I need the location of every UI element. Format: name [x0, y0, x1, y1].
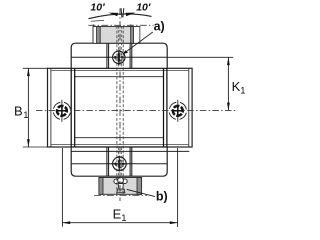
- dim E1 extension left: [61, 148, 63, 227]
- bottom piece bar right: [137, 178, 142, 195]
- lower screw joint line: [71, 163, 167, 165]
- top piece clamp bar right: [131, 27, 134, 44]
- screw right cross slot: [173, 106, 183, 116]
- screw bottom cross slot: [114, 163, 124, 165]
- top piece tick left: [92, 24, 94, 26]
- svg-text:a): a): [154, 20, 165, 34]
- screw bottom cross vertical: [118, 156, 120, 172]
- slab chamfer line left: [50, 68, 52, 147]
- bottom lube piece body: [99, 178, 142, 195]
- horizontal centerline: [36, 109, 236, 111]
- top clamp piece body: [93, 27, 140, 44]
- upper block: [71, 43, 167, 68]
- lower port wall right: [130, 147, 132, 176]
- hidden thread line right top: [121, 26, 123, 68]
- tilt arc arrow right: [126, 13, 136, 17]
- tilt arc dimension: [89, 14, 152, 19]
- slab recess top edge: [75, 76, 163, 78]
- tilt line tick right: [122, 8, 125, 17]
- dim B1 extension bottom: [23, 146, 48, 148]
- block edge through slab left: [71, 68, 75, 147]
- grease nipple base line: [117, 190, 125, 192]
- screw top outer: [113, 51, 125, 63]
- svg-text:10′: 10′: [136, 2, 151, 14]
- lube hole circle left: [114, 179, 119, 184]
- bottom piece bar left: [99, 178, 103, 195]
- screw top cross vertical: [118, 50, 120, 65]
- screw bottom cross horizontal: [111, 163, 129, 165]
- hidden thread line right bottom: [121, 148, 123, 177]
- top piece clamp bar left: [97, 27, 101, 44]
- callout b) leader: [127, 189, 155, 196]
- lube hole circle right: [123, 179, 128, 184]
- block edge through slab right: [164, 68, 167, 147]
- dim B1 arrow top: [27, 68, 30, 76]
- tilt face line left: [91, 19, 104, 22]
- grease nipple base: [117, 189, 125, 193]
- slab chamfer line top: [51, 70, 189, 72]
- hidden hole line left: [116, 26, 118, 194]
- main slab body: [48, 68, 193, 147]
- screw top head ring fragments: [114, 52, 124, 62]
- dim B1 arrow bottom: [27, 139, 30, 147]
- upper screw joint line: [71, 56, 167, 58]
- svg-text:10′: 10′: [90, 2, 105, 14]
- lower block base joint line: [71, 150, 190, 152]
- top piece pivot centerline: [89, 24, 154, 26]
- top piece white strip left: [94, 27, 97, 43]
- svg-text:B: B: [14, 104, 23, 119]
- screw bottom head ring fragments: [114, 159, 124, 169]
- dim E1 arrow right: [170, 221, 178, 224]
- dim B1 line: [27, 68, 29, 147]
- screw bottom outer: [113, 157, 127, 171]
- screw left outer: [52, 100, 73, 121]
- top piece tick right: [130, 24, 132, 26]
- hidden thread line left bottom: [117, 148, 119, 177]
- hidden hole line right: [122, 26, 124, 194]
- vertical centerline: [119, 9, 121, 202]
- dim E1 arrow left: [62, 221, 70, 224]
- dim E1 line: [62, 222, 177, 224]
- dim K1 arrow top: [227, 57, 230, 65]
- callout a) leader arrowhead: [123, 50, 128, 54]
- slab chamfer line bottom: [51, 144, 189, 146]
- screw right cross vertical: [177, 100, 179, 122]
- callout a) leader: [123, 32, 153, 54]
- svg-text:1: 1: [23, 110, 28, 121]
- screw right outer: [167, 100, 188, 121]
- upper port wall left: [107, 43, 109, 68]
- svg-text:1: 1: [240, 85, 245, 96]
- svg-text:1: 1: [121, 213, 126, 224]
- screw top cross slot: [114, 56, 123, 58]
- screw left head ring: [55, 104, 69, 118]
- screw left cross vertical: [61, 100, 63, 122]
- screw right head ring: [171, 104, 185, 118]
- lower block: [71, 147, 167, 176]
- dim B1 extension top: [23, 67, 48, 69]
- tilt arc arrow left: [108, 13, 118, 17]
- bottom piece pivot centerline: [94, 194, 147, 196]
- grease nipple neck: [118, 184, 123, 190]
- screw left cross slot: [57, 106, 67, 116]
- dim K1 extension top: [167, 56, 233, 58]
- svg-text:b): b): [156, 189, 168, 203]
- hidden thread line left top: [117, 26, 119, 68]
- top piece white strip right: [134, 27, 140, 43]
- dim K1 arrow bottom: [227, 103, 230, 111]
- slab chamfer line right: [188, 68, 190, 147]
- dim K1 line: [227, 57, 229, 110]
- grease nipple dome: [118, 177, 124, 183]
- tilt line tick left: [120, 8, 123, 17]
- lower port wall left: [107, 147, 109, 176]
- dim E1 extension right: [177, 148, 179, 227]
- slab recess bottom edge: [75, 137, 163, 139]
- upper port wall right: [130, 43, 132, 68]
